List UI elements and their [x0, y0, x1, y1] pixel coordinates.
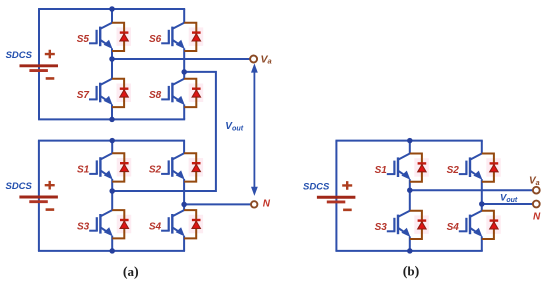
svg-text:S7: S7	[77, 90, 90, 101]
junction dot lower bridge right leg / N line	[181, 202, 187, 208]
transistor S8 (IGBT)	[161, 79, 185, 105]
plus sign of SDCS upper	[45, 50, 55, 59]
transistor S3 (IGBT)	[387, 211, 411, 237]
wire right leg segments of bridge (b)	[481, 141, 483, 251]
wire left leg segments of bridge (b)	[409, 141, 411, 251]
wire right leg segments of upper bridge	[183, 9, 185, 119]
transistor S1 (IGBT)	[89, 153, 113, 179]
DC source battery SDCS lower	[19, 197, 58, 202]
free-wheeling diode of S4	[184, 210, 203, 238]
svg-text:S3: S3	[77, 222, 90, 233]
wire bottom rail of bridge (b)	[335, 250, 482, 252]
free-wheeling diode of S7	[112, 79, 131, 107]
svg-text:Va: Va	[529, 176, 540, 188]
free-wheeling diode of S3	[410, 211, 429, 239]
wire top rail of bridge (b)	[335, 140, 482, 142]
junction dot upper bridge right leg / series link	[181, 69, 187, 75]
DC source battery SDCS upper	[20, 66, 59, 71]
Vout measurement arrow between Va and N	[251, 63, 258, 196]
transistor S1 (IGBT)	[387, 154, 411, 180]
svg-text:S2: S2	[447, 165, 460, 176]
transistor S6 (IGBT)	[161, 23, 185, 49]
transistor S3 (IGBT)	[89, 210, 113, 236]
wire N output line from lower-right leg midpoint	[184, 203, 251, 205]
free-wheeling diode of S2	[184, 153, 203, 181]
wire top rail of upper bridge	[38, 8, 185, 10]
svg-text:S4: S4	[447, 222, 460, 233]
svg-text:SDCS: SDCS	[5, 181, 32, 192]
free-wheeling diode of S3	[112, 210, 131, 238]
free-wheeling diode of S1	[410, 154, 429, 182]
junction dot upper bridge left leg / Va line	[109, 56, 115, 62]
transistor S4 (IGBT)	[161, 210, 185, 236]
free-wheeling diode of S4	[482, 211, 501, 239]
svg-text:Va: Va	[261, 53, 272, 65]
svg-text:N: N	[533, 211, 541, 222]
junction dot upper bridge top rail / left leg	[109, 6, 115, 12]
minus sign of SDCS upper	[46, 77, 55, 80]
minus sign of SDCS lower	[46, 208, 55, 211]
wire top rail of lower bridge	[38, 140, 185, 142]
wire Va output line of (b)	[410, 189, 533, 191]
plus sign of SDCS (b)	[342, 181, 352, 190]
wire Va output line from upper-left leg midpoint	[112, 58, 250, 60]
junction dot lower bridge left leg / series link	[109, 188, 115, 194]
wire bottom rail of lower bridge	[38, 250, 185, 252]
terminal node Va of (a)	[250, 56, 257, 63]
junction dot (b) top rail / left leg	[407, 138, 413, 144]
junction dot (b) right leg / N line	[479, 201, 485, 207]
plus sign of SDCS lower	[45, 181, 55, 190]
wire N output line of (b)	[482, 203, 533, 205]
junction dot lower bridge top rail / left leg	[109, 138, 115, 144]
transistor S7 (IGBT)	[89, 79, 113, 105]
svg-text:SDCS: SDCS	[6, 50, 33, 61]
junction dot upper bridge bottom rail / left leg	[109, 117, 115, 123]
free-wheeling diode of S8	[184, 79, 203, 107]
junction dot (b) left leg / Va line	[407, 187, 413, 193]
free-wheeling diode of S1	[112, 153, 131, 181]
svg-text:S5: S5	[77, 34, 90, 45]
svg-text:S6: S6	[149, 34, 162, 45]
svg-text:(b): (b)	[403, 263, 420, 279]
svg-text:S4: S4	[149, 222, 162, 233]
junction dot lower bridge bottom rail / left leg	[109, 248, 115, 254]
transistor S4 (IGBT)	[459, 211, 483, 237]
wire right leg segments of lower bridge	[183, 141, 185, 251]
wire left leg segments of upper bridge	[111, 9, 113, 119]
terminal node Va of (b)	[533, 187, 540, 194]
terminal node N of (a)	[251, 201, 257, 207]
svg-text:Vout: Vout	[225, 121, 243, 133]
junction dot (b) bottom rail / left leg	[407, 248, 413, 254]
DC source battery SDCS (b)	[317, 197, 356, 202]
svg-text:(a): (a)	[123, 264, 139, 280]
svg-text:SDCS: SDCS	[303, 181, 330, 192]
wire left rail of bridge (b)	[335, 141, 337, 251]
svg-text:S1: S1	[77, 165, 90, 176]
svg-text:S2: S2	[149, 165, 162, 176]
transistor S2 (IGBT)	[459, 154, 483, 180]
wire left rail of lower bridge	[38, 141, 40, 251]
svg-text:Vout: Vout	[500, 193, 518, 205]
wire left leg segments of lower bridge	[111, 141, 113, 251]
svg-text:S8: S8	[149, 90, 162, 101]
wire bottom rail of upper bridge	[38, 118, 185, 120]
terminal node N of (b)	[533, 201, 540, 208]
svg-text:S3: S3	[375, 222, 388, 233]
free-wheeling diode of S5	[112, 23, 131, 51]
svg-text:N: N	[263, 199, 271, 210]
free-wheeling diode of S6	[184, 23, 203, 51]
wire series link: upper-right leg midpoint down to lower-left leg midpoint	[112, 72, 216, 191]
transistor S5 (IGBT)	[89, 23, 113, 49]
svg-text:S1: S1	[375, 165, 388, 176]
transistor S2 (IGBT)	[161, 153, 185, 179]
free-wheeling diode of S2	[482, 154, 501, 182]
minus sign of SDCS (b)	[343, 209, 352, 212]
wire left rail of upper bridge	[38, 9, 40, 119]
